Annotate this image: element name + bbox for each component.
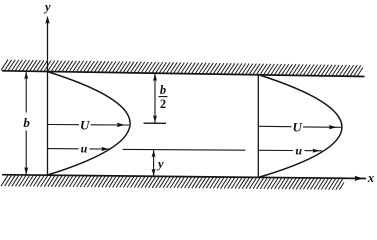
svg-text:b: b	[160, 83, 166, 97]
svg-text:U: U	[293, 120, 303, 135]
x-axis arrowhead	[355, 176, 364, 181]
svg-text:U: U	[80, 117, 90, 132]
right velocity profile parabola	[259, 75, 342, 177]
left velocity profile parabola	[48, 72, 131, 175]
y-axis line	[47, 18, 49, 176]
label b/2 fraction	[159, 83, 168, 111]
svg-text:2: 2	[160, 97, 166, 111]
svg-text:x: x	[367, 171, 374, 185]
dimension line for b (channel height)	[25, 72, 27, 175]
bottom wall line / x-axis	[2, 175, 366, 179]
dimension line for b/2	[154, 74, 156, 123]
y-axis arrowhead	[45, 16, 49, 24]
dimension line for y (with arrows both ends)	[153, 150, 155, 176]
svg-text:y: y	[156, 157, 164, 171]
right u arrow (local velocity)	[258, 149, 322, 152]
left U arrow (centerline velocity)	[48, 124, 130, 127]
right U arrow (centerline velocity)	[258, 126, 341, 127]
top wall line	[2, 71, 365, 77]
svg-text:y: y	[43, 0, 51, 14]
horizontal reference line at height y	[123, 148, 246, 151]
right profile chord line	[257, 75, 259, 177]
centerline tick at b/2	[144, 122, 167, 124]
bottom wall hatching	[1, 175, 344, 190]
top wall hatching	[1, 60, 363, 76]
svg-text:b: b	[23, 115, 30, 130]
left u arrow (local velocity)	[48, 148, 111, 150]
svg-text:u: u	[81, 141, 88, 155]
svg-text:u: u	[295, 143, 302, 157]
